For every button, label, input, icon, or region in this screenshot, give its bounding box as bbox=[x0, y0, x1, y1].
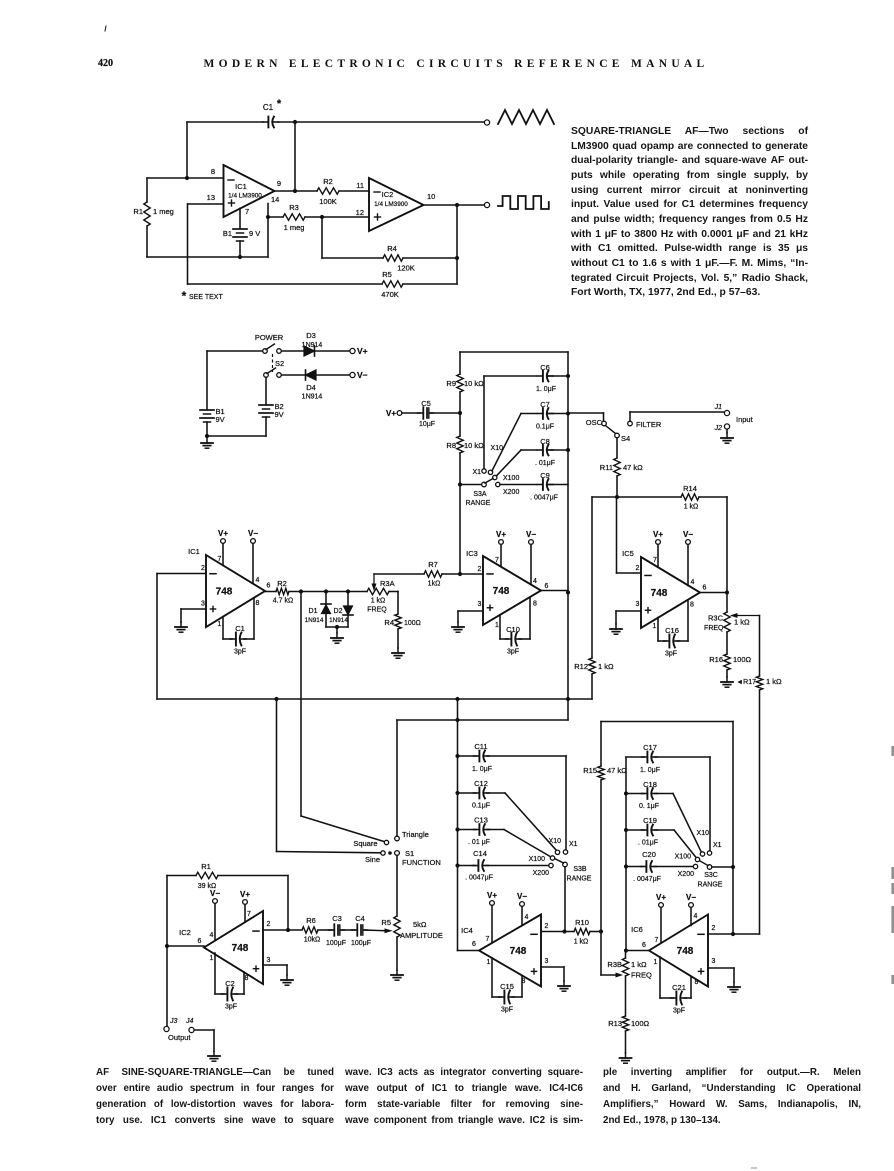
node C18 tap bbox=[624, 791, 628, 795]
svg-text:R11: R11 bbox=[600, 463, 613, 472]
wire S3A common bbox=[460, 484, 481, 486]
terminal V- IC1 bbox=[251, 539, 256, 544]
svg-text:Square: Square bbox=[353, 839, 377, 848]
svg-text:Triangle: Triangle bbox=[402, 830, 429, 839]
op-amp IC1 1/4 LM3900 bbox=[224, 165, 275, 217]
wire S1 common down to R5 bbox=[396, 855, 398, 916]
svg-text:1N914: 1N914 bbox=[329, 617, 348, 624]
resistor R4 120K bbox=[383, 255, 403, 261]
wire pin 7 of IC1a to battery bbox=[239, 208, 241, 228]
wire IC2 pin3 ground bbox=[263, 964, 287, 966]
svg-text:. 01 μF: . 01 μF bbox=[468, 839, 490, 846]
svg-text:*: * bbox=[182, 289, 187, 303]
wire battery B1 to switch bbox=[207, 350, 263, 352]
svg-text:7: 7 bbox=[495, 557, 499, 564]
switch S3A common contact bbox=[482, 482, 487, 487]
svg-text:C6: C6 bbox=[540, 363, 550, 372]
svg-text:R14: R14 bbox=[683, 484, 697, 493]
contact X10 S3C bbox=[700, 852, 704, 856]
jack J2 input ground bbox=[724, 424, 729, 429]
capacitor C6 1.0uF bbox=[537, 375, 543, 377]
svg-text:13: 13 bbox=[207, 193, 215, 202]
ground IC6 pin3 bbox=[733, 982, 735, 987]
svg-text:0. 1μF: 0. 1μF bbox=[639, 803, 659, 810]
node C5 rail bbox=[458, 411, 462, 415]
svg-text:R16: R16 bbox=[709, 655, 723, 664]
caption square-triangle AF bbox=[571, 125, 808, 301]
svg-text:1: 1 bbox=[218, 621, 222, 628]
resistor R4 100 ohm bbox=[395, 614, 401, 629]
wire triangle line down to S1 bbox=[396, 720, 398, 836]
resistor R3 1 meg bbox=[283, 214, 305, 220]
svg-text:D1: D1 bbox=[309, 608, 318, 615]
node C13 tap bbox=[455, 827, 459, 831]
wire pin 8 of IC1a bbox=[147, 177, 224, 179]
resistor R13 100 ohm bbox=[622, 1016, 628, 1031]
resistor R15 47k bbox=[598, 766, 604, 780]
svg-text:9: 9 bbox=[277, 179, 281, 188]
node IC5 output bbox=[725, 590, 729, 594]
svg-text:S4: S4 bbox=[621, 434, 630, 443]
svg-text:V+: V+ bbox=[386, 409, 396, 418]
svg-text:R3: R3 bbox=[289, 203, 299, 212]
svg-text:100Ω: 100Ω bbox=[733, 655, 752, 664]
svg-text:100Ω: 100Ω bbox=[404, 620, 421, 627]
svg-text:748: 748 bbox=[651, 588, 668, 599]
wire IC2 pin2 bbox=[263, 929, 302, 931]
node R3 right junction bbox=[320, 215, 324, 219]
svg-text:V−: V− bbox=[683, 530, 693, 539]
switch S1 common bbox=[388, 851, 392, 855]
svg-text:*: * bbox=[277, 98, 282, 110]
capacitor C11 1.0uF bbox=[458, 755, 477, 757]
switch S3C common bbox=[707, 865, 712, 870]
svg-text:100Ω: 100Ω bbox=[631, 1019, 650, 1028]
resistor R6 10k bbox=[302, 927, 318, 933]
node R2 right bbox=[299, 589, 303, 593]
svg-text:2: 2 bbox=[545, 923, 549, 930]
svg-text:R3C: R3C bbox=[708, 614, 724, 623]
ground J4 bbox=[213, 1051, 215, 1056]
svg-text:C12: C12 bbox=[474, 779, 488, 788]
wire filter box top bbox=[601, 721, 733, 723]
caption column 3 bbox=[603, 1065, 861, 1129]
wire IC6 pin2 to R17 branch bbox=[733, 933, 760, 935]
svg-text:0.1μF: 0.1μF bbox=[536, 424, 554, 431]
wire R3 to pin 12 bbox=[268, 216, 283, 218]
svg-text:1: 1 bbox=[495, 622, 499, 629]
svg-text:R3A: R3A bbox=[380, 579, 395, 588]
jack J1 input bbox=[724, 410, 729, 415]
node battery bottom bbox=[238, 255, 242, 259]
svg-text:1N914: 1N914 bbox=[302, 394, 323, 401]
wire R3C to R16 bbox=[726, 632, 728, 654]
svg-text:1. 0μF: 1. 0μF bbox=[472, 766, 492, 773]
wire C11 right down to X1 bbox=[565, 756, 567, 850]
wire R1 right down to pin2 bbox=[287, 876, 289, 931]
wire long bus IC1 pin2 net bbox=[157, 698, 592, 700]
svg-text:1 meg: 1 meg bbox=[153, 207, 174, 216]
square output terminal bbox=[484, 202, 489, 207]
wire C4 to amplitude wiper bbox=[364, 929, 385, 932]
terminal V+ IC5 bbox=[656, 540, 661, 545]
svg-text:FREQ: FREQ bbox=[631, 971, 652, 980]
svg-text:R5: R5 bbox=[381, 918, 391, 927]
svg-text:3pF: 3pF bbox=[225, 1004, 237, 1011]
svg-text:V+: V+ bbox=[487, 891, 497, 900]
node C8 rail bbox=[566, 448, 570, 452]
svg-text:MODERN ELECTRONIC CIRCUITS REF: MODERN ELECTRONIC CIRCUITS REFERENCE MAN… bbox=[203, 58, 708, 70]
wire R5 line bbox=[188, 283, 383, 285]
svg-text:3pF: 3pF bbox=[665, 651, 677, 658]
wire S3B common down to IC4 pin2 bbox=[564, 867, 566, 932]
svg-text:X100: X100 bbox=[503, 475, 519, 482]
svg-text:C5: C5 bbox=[421, 399, 431, 408]
capacitor C12 0.1uF bbox=[458, 792, 477, 794]
potentiometer R5 5k AMPLITUDE bbox=[394, 916, 400, 937]
ground R13 bbox=[625, 1053, 627, 1058]
svg-text:X1: X1 bbox=[472, 469, 481, 476]
resistor R10 1k bbox=[565, 931, 575, 933]
svg-text:8: 8 bbox=[211, 167, 215, 176]
wire pin 14 of IC1a down bbox=[267, 204, 269, 258]
compensation C15 3pF bbox=[491, 958, 493, 997]
wire pin 13 of IC1a bbox=[188, 203, 224, 205]
caption column 2 bbox=[345, 1065, 583, 1129]
diode D4 1N914 bbox=[281, 374, 305, 376]
wire IC1 pin3 to ground bbox=[181, 608, 206, 610]
resistor R2 100K bbox=[317, 188, 339, 194]
svg-text:D3: D3 bbox=[306, 331, 316, 340]
svg-text:IC3: IC3 bbox=[466, 549, 478, 558]
contact OSC bbox=[602, 421, 607, 426]
svg-text:470K: 470K bbox=[381, 290, 399, 299]
wire C17 right down to X1 bbox=[709, 757, 711, 851]
contact X10 S3B bbox=[555, 850, 559, 854]
svg-text:4: 4 bbox=[533, 578, 537, 585]
wire rail R8 down to IC3 input bbox=[459, 453, 461, 574]
svg-text:B1: B1 bbox=[223, 229, 232, 238]
svg-text:4: 4 bbox=[691, 579, 695, 586]
wire S3C common to right rail bbox=[712, 866, 733, 868]
svg-text:1 kΩ: 1 kΩ bbox=[734, 618, 750, 627]
svg-text:9V: 9V bbox=[216, 415, 225, 424]
svg-text:V+: V+ bbox=[496, 530, 506, 539]
wire IC5 pin2 bbox=[617, 572, 642, 574]
op-amp IC5 748 bbox=[641, 557, 700, 628]
terminal V+ IC1 bbox=[221, 539, 226, 544]
wire diode bottoms bbox=[326, 626, 348, 628]
svg-text:10 kΩ: 10 kΩ bbox=[464, 441, 484, 450]
scan artifact marks right edge bbox=[891, 746, 894, 756]
resistor R9 10k bbox=[457, 374, 463, 392]
svg-text:R1: R1 bbox=[201, 862, 211, 871]
svg-text:8: 8 bbox=[533, 601, 537, 608]
svg-text:R5: R5 bbox=[382, 270, 392, 279]
svg-text:10kΩ: 10kΩ bbox=[304, 937, 321, 944]
contact X200 S3A bbox=[496, 482, 500, 486]
terminal V- supply bbox=[350, 372, 355, 377]
wire R14 right down to IC5 output bbox=[726, 497, 728, 593]
wire C18 diagonal to X10 bbox=[673, 794, 702, 853]
diode D3 1N914 bbox=[281, 350, 304, 352]
svg-text:4: 4 bbox=[525, 914, 529, 921]
wire IC6 output node bbox=[626, 950, 649, 952]
svg-text:V−: V− bbox=[248, 529, 258, 538]
wire X200 to C9 bbox=[500, 484, 536, 486]
wire C5 to rail bbox=[430, 412, 461, 414]
svg-text:R4: R4 bbox=[384, 618, 394, 627]
node R10 right R15 rail bbox=[599, 929, 603, 933]
svg-text:100μF: 100μF bbox=[326, 940, 346, 947]
svg-text:2: 2 bbox=[201, 565, 205, 572]
svg-text:D4: D4 bbox=[306, 383, 316, 392]
svg-text:47 kΩ: 47 kΩ bbox=[623, 463, 643, 472]
compensation C1 3pF of IC1 bbox=[222, 617, 224, 640]
svg-text:1. 0μF: 1. 0μF bbox=[536, 386, 556, 393]
svg-text:R2: R2 bbox=[277, 579, 287, 588]
op-amp IC6 748 bbox=[649, 915, 708, 987]
svg-text:7: 7 bbox=[486, 936, 490, 943]
svg-text:C19: C19 bbox=[643, 816, 657, 825]
capacitor C4 100uF bbox=[352, 929, 358, 931]
wire square signal vertical bbox=[300, 592, 302, 817]
svg-text:1 kΩ: 1 kΩ bbox=[766, 677, 782, 686]
switch S3B common bbox=[563, 862, 568, 867]
svg-text:IC6: IC6 bbox=[631, 925, 643, 934]
node IC6 output bbox=[624, 948, 628, 952]
svg-text:C1: C1 bbox=[235, 624, 245, 633]
svg-text:C18: C18 bbox=[643, 780, 657, 789]
wire R3B to R13 bbox=[625, 976, 627, 1016]
svg-text:1. 0μF: 1. 0μF bbox=[640, 767, 660, 774]
svg-text:1kΩ: 1kΩ bbox=[428, 581, 441, 588]
ground R5 bbox=[396, 970, 398, 975]
wire IC3 output bbox=[541, 590, 568, 592]
svg-text:S3A: S3A bbox=[473, 491, 487, 498]
svg-text:V−: V− bbox=[357, 370, 368, 380]
wire IC2a output bbox=[424, 204, 485, 206]
wire C9 to rail bbox=[547, 484, 568, 486]
svg-text:C4: C4 bbox=[355, 914, 365, 923]
svg-text:7: 7 bbox=[218, 556, 222, 563]
svg-text:3: 3 bbox=[267, 957, 271, 964]
node bus C rail tap bbox=[455, 697, 459, 701]
svg-text:X10: X10 bbox=[549, 838, 562, 845]
svg-text:RANGE: RANGE bbox=[567, 876, 592, 883]
capacitor C3 100uF bbox=[329, 929, 335, 931]
wire C rail from bus to IC4 output bbox=[457, 720, 459, 951]
contact FILTER bbox=[628, 421, 633, 426]
battery B1 9V lower bbox=[200, 409, 214, 411]
wire IC5 output bbox=[700, 592, 727, 594]
svg-text:X200: X200 bbox=[678, 871, 694, 878]
svg-text:10 kΩ: 10 kΩ bbox=[464, 379, 484, 388]
svg-text:C11: C11 bbox=[474, 742, 487, 751]
wire X100 to C8 bbox=[497, 450, 522, 476]
svg-text:C16: C16 bbox=[665, 626, 679, 635]
svg-text:1 kΩ: 1 kΩ bbox=[598, 662, 614, 671]
ground battery common bbox=[206, 438, 208, 443]
svg-text:R9: R9 bbox=[446, 379, 456, 388]
svg-text:1/4 LM3900: 1/4 LM3900 bbox=[374, 201, 408, 208]
contact Triangle S1 bbox=[395, 836, 400, 841]
svg-text:FREQ: FREQ bbox=[367, 607, 387, 614]
terminal V+ IC4 bbox=[490, 901, 495, 906]
svg-text:9V: 9V bbox=[275, 410, 284, 419]
svg-text:748: 748 bbox=[510, 946, 527, 957]
terminal V- IC2 bbox=[213, 899, 218, 904]
node S3C rail bbox=[731, 865, 735, 869]
switch S4 lever bbox=[606, 426, 616, 434]
wire IC6 pin2 bbox=[708, 933, 733, 935]
op-amp IC1 748 bbox=[206, 555, 265, 627]
stray mark top left bbox=[105, 26, 106, 31]
node S3A common tap bbox=[458, 482, 462, 486]
svg-text:Output: Output bbox=[168, 1033, 191, 1042]
svg-text:C1: C1 bbox=[263, 103, 274, 112]
node R3 left junction bbox=[266, 215, 270, 219]
wire R3A wiper to R7 bbox=[374, 573, 424, 575]
svg-text:V−: V− bbox=[526, 530, 536, 539]
battery B2 9V bbox=[259, 404, 273, 406]
svg-text:1N914: 1N914 bbox=[302, 342, 323, 349]
wire left vertical from C1 to pin8 node bbox=[186, 122, 188, 178]
ground IC2 pin3 bbox=[286, 975, 288, 980]
wire battery common rail bbox=[207, 435, 266, 437]
wire IC1a output to R2 bbox=[275, 190, 318, 192]
svg-text:1/4 LM3900: 1/4 LM3900 bbox=[228, 193, 262, 200]
contact X200 S3B bbox=[549, 863, 553, 867]
terminal V- IC4 bbox=[520, 902, 525, 907]
svg-text:FUNCTION: FUNCTION bbox=[402, 858, 441, 867]
node IC4 pin2 S3B bbox=[562, 929, 566, 933]
contact X100 S3C bbox=[695, 857, 699, 861]
wire rail top box bbox=[459, 352, 461, 374]
svg-text:1: 1 bbox=[487, 959, 491, 966]
jack J3 output bbox=[164, 1026, 169, 1031]
svg-text:V+: V+ bbox=[357, 346, 368, 356]
triangle wave symbol bbox=[498, 110, 554, 124]
svg-text:3pF: 3pF bbox=[507, 649, 519, 656]
potentiometer R3B 1k FREQ bbox=[622, 958, 628, 976]
node diode ground bbox=[335, 625, 339, 629]
svg-text:IC2: IC2 bbox=[382, 190, 394, 199]
svg-text:7: 7 bbox=[655, 937, 659, 944]
svg-text:420: 420 bbox=[98, 58, 113, 69]
svg-text:J1: J1 bbox=[714, 404, 723, 411]
ground IC5 pin3 bbox=[615, 624, 617, 629]
svg-text:V+: V+ bbox=[240, 890, 250, 899]
svg-text:RANGE: RANGE bbox=[466, 500, 491, 507]
svg-text:4: 4 bbox=[256, 577, 260, 584]
svg-text:C17: C17 bbox=[643, 743, 657, 752]
resistor R1 1 meg bbox=[146, 178, 148, 202]
wire C13 diagonal to X100 bbox=[504, 830, 551, 858]
ground J2 bbox=[726, 433, 728, 438]
svg-text:◄R17: ◄R17 bbox=[736, 679, 756, 686]
svg-text:C21: C21 bbox=[672, 983, 686, 992]
node IC6 pin2 rail bbox=[731, 932, 735, 936]
diode D2 1N914 bbox=[347, 592, 349, 607]
lever S3A bbox=[485, 479, 493, 484]
svg-text:X200: X200 bbox=[533, 870, 549, 877]
wire IC4 pin3 ground bbox=[541, 966, 564, 968]
ground R16 bbox=[726, 677, 728, 682]
wire R4 line bbox=[322, 257, 383, 259]
svg-text:C20: C20 bbox=[642, 850, 656, 859]
svg-text:C13: C13 bbox=[474, 816, 488, 825]
svg-text:3pF: 3pF bbox=[234, 649, 246, 656]
wire R3C wiper down through R17 bbox=[759, 616, 761, 677]
wire B1 vertical bbox=[206, 351, 208, 409]
capacitor C14 .0047uF bbox=[458, 865, 476, 867]
svg-text:V+: V+ bbox=[656, 893, 666, 902]
wire IC3 output rail to triangle line bbox=[567, 593, 569, 721]
svg-text:C9: C9 bbox=[540, 471, 550, 480]
node R11 to R14 wire bbox=[615, 495, 619, 499]
terminal V+ IC2 bbox=[243, 900, 248, 905]
svg-text:OSC: OSC bbox=[586, 418, 603, 427]
svg-text:POWER: POWER bbox=[255, 333, 284, 342]
op-amp IC2 1/4 LM3900 bbox=[369, 178, 424, 231]
wire rail R9 to R8 bbox=[459, 392, 461, 436]
svg-text:V+: V+ bbox=[653, 530, 663, 539]
svg-text:1 kΩ: 1 kΩ bbox=[631, 960, 647, 969]
terminal V+ IC3 bbox=[499, 540, 504, 545]
wire B2 to switch pole B bbox=[265, 377, 267, 404]
svg-text:1 kΩ: 1 kΩ bbox=[684, 504, 699, 511]
svg-text:5kΩ: 5kΩ bbox=[413, 920, 427, 929]
resistor R2 4.7k bbox=[276, 588, 289, 594]
svg-text:J2: J2 bbox=[714, 425, 723, 432]
node C12 tap bbox=[455, 791, 459, 795]
node C19 tap bbox=[624, 828, 628, 832]
svg-text:3: 3 bbox=[478, 601, 482, 608]
resistor R1 39k bbox=[196, 872, 218, 878]
svg-text:4: 4 bbox=[694, 913, 698, 920]
svg-text:V+: V+ bbox=[218, 529, 228, 538]
capacitor C17 1.0uF bbox=[626, 756, 644, 758]
svg-text:R8: R8 bbox=[446, 441, 456, 450]
triangle output terminal bbox=[484, 120, 489, 125]
contact X100 S3A bbox=[493, 475, 497, 479]
svg-text:8: 8 bbox=[690, 602, 694, 609]
wire IC1 output to R2 bbox=[265, 591, 276, 593]
wire top feedback with C1 bbox=[187, 121, 263, 123]
wire C17 rail bbox=[625, 757, 627, 951]
capacitor C19 .01uF bbox=[626, 829, 644, 831]
ground IC1 pin3 bbox=[180, 622, 182, 627]
terminal V- IC5 bbox=[686, 540, 691, 545]
svg-text:R15: R15 bbox=[583, 766, 597, 775]
wire R14 left down through R12 bbox=[591, 497, 593, 658]
node bus sine tap bbox=[274, 697, 278, 701]
svg-text:10: 10 bbox=[427, 192, 435, 201]
svg-text:V−: V− bbox=[686, 893, 696, 902]
contact X1 S3C bbox=[707, 851, 711, 855]
op-amp IC3 748 bbox=[483, 556, 541, 625]
wire C7 to rail bbox=[547, 413, 568, 415]
svg-text:R1: R1 bbox=[133, 207, 143, 216]
diode D1 1N914 bbox=[325, 592, 327, 605]
svg-text:R12: R12 bbox=[574, 662, 588, 671]
compensation C2 3pF bbox=[214, 953, 216, 994]
capacitor C9 .0047uF bbox=[537, 484, 543, 486]
wire IC4 pin2 bbox=[541, 931, 563, 933]
node output junction bbox=[293, 189, 297, 193]
compensation C21 3pF bbox=[659, 957, 661, 998]
